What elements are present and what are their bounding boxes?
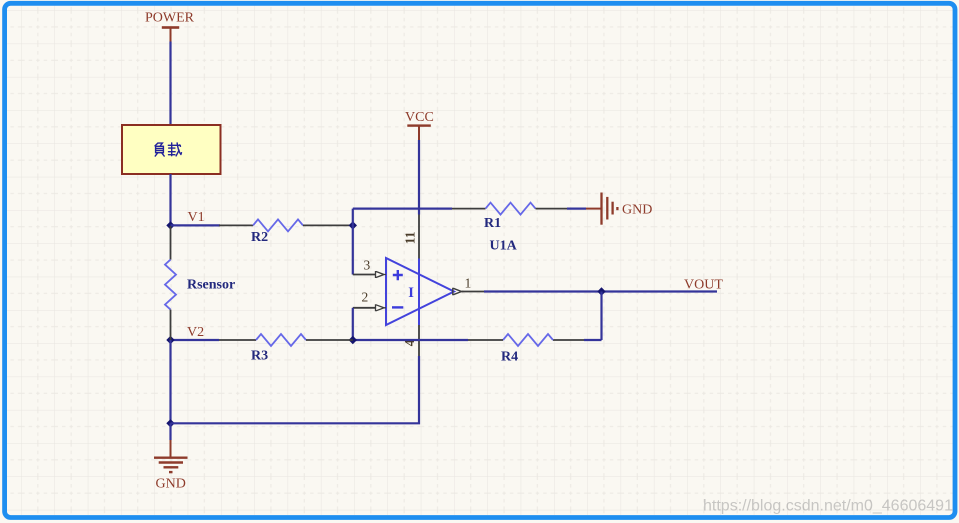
wire R1 to GND xyxy=(567,208,586,210)
power port VCC xyxy=(405,110,434,140)
svg-text:POWER: POWER xyxy=(145,11,195,26)
svg-text:U1A: U1A xyxy=(490,239,518,254)
svg-text:https://blog.csdn.net/m0_46606: https://blog.csdn.net/m0_46606491 xyxy=(703,498,953,515)
pin 4 xyxy=(402,325,419,356)
svg-text:1: 1 xyxy=(465,276,472,291)
pin 2 xyxy=(353,290,386,312)
pin 3 xyxy=(353,258,386,279)
svg-text:11: 11 xyxy=(402,231,417,244)
wire load to V1 xyxy=(169,174,171,225)
wire pin2 to R3 row xyxy=(352,308,354,340)
wire feedback to R4 xyxy=(584,339,602,341)
node V2 xyxy=(166,325,204,344)
power port POWER xyxy=(145,11,195,42)
svg-text:V2: V2 xyxy=(187,325,204,340)
op-amp U1A xyxy=(386,239,518,326)
load box 负载 xyxy=(122,125,221,174)
wire V1 to R2 xyxy=(171,224,221,226)
svg-text:2: 2 xyxy=(362,290,369,305)
node VOUT junction xyxy=(597,287,605,295)
resistor Rsensor xyxy=(165,226,235,340)
wire V2 down to ground row xyxy=(169,340,171,423)
svg-text:VOUT: VOUT xyxy=(684,278,723,293)
node V1 xyxy=(166,210,204,230)
svg-text:R3: R3 xyxy=(251,349,268,364)
wire VCC to pin11 xyxy=(418,140,420,215)
wire output to VOUT xyxy=(484,290,717,292)
ground GND right xyxy=(586,193,652,225)
wire POWER to load xyxy=(169,42,171,126)
wire junction to GND symbol xyxy=(169,423,171,440)
wire vertical to R1 row and pin3 xyxy=(352,209,354,275)
resistor R4 xyxy=(468,334,584,365)
wire feedback vertical xyxy=(600,292,602,341)
wire R4 to junction xyxy=(353,339,468,341)
svg-text:GND: GND xyxy=(156,477,186,492)
junction at R2 right xyxy=(349,221,357,229)
wire through op-amp xyxy=(418,259,420,326)
wire output lead xyxy=(462,291,485,293)
svg-text:I: I xyxy=(408,285,414,301)
wire R1 row horizontal xyxy=(353,208,452,210)
wire ground row to pin4 xyxy=(171,356,420,423)
svg-text:VCC: VCC xyxy=(405,110,434,125)
svg-text:Rsensor: Rsensor xyxy=(187,278,235,293)
junction R3/R4/pin2 xyxy=(349,336,357,344)
svg-text:R2: R2 xyxy=(251,230,268,245)
svg-text:R1: R1 xyxy=(484,216,501,231)
ground GND bottom xyxy=(154,440,188,492)
junction ground row xyxy=(166,419,174,427)
resistor R3 xyxy=(219,334,353,364)
pin 11 xyxy=(402,215,419,259)
resistor R2 xyxy=(219,219,353,245)
svg-text:3: 3 xyxy=(364,258,371,273)
pin 1 output xyxy=(453,276,471,296)
svg-text:R4: R4 xyxy=(501,350,518,365)
wire V2 to R3 xyxy=(171,339,220,341)
resistor R1 xyxy=(452,203,567,231)
svg-text:V1: V1 xyxy=(188,210,205,225)
svg-text:GND: GND xyxy=(622,203,652,218)
